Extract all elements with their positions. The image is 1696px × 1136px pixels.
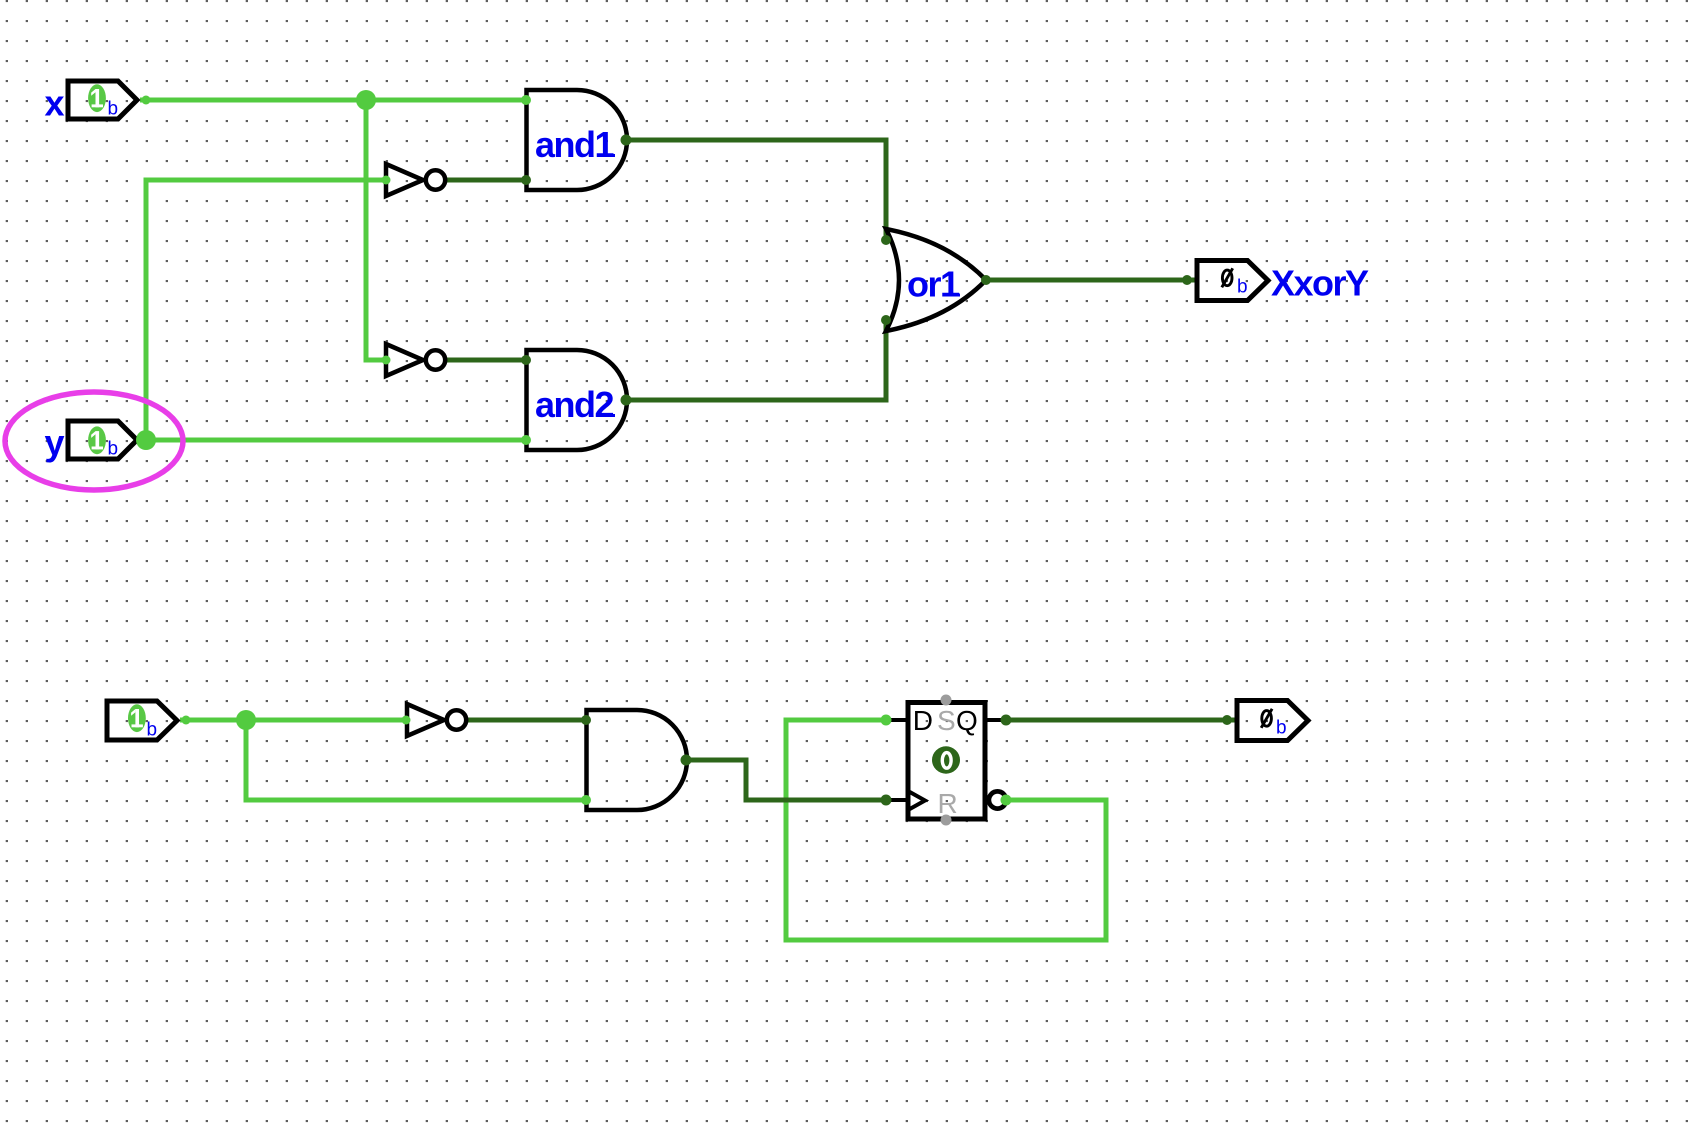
svg-text:b: b: [1276, 718, 1287, 739]
svg-text:XxorY: XxorY: [1271, 263, 1369, 304]
svg-text:and2: and2: [535, 384, 614, 425]
svg-text:or1: or1: [907, 264, 960, 305]
svg-text:y: y: [44, 422, 64, 463]
svg-text:D: D: [913, 705, 933, 736]
svg-text:and1: and1: [535, 124, 615, 165]
svg-text:b: b: [108, 439, 119, 460]
svg-text:S: S: [937, 705, 956, 736]
svg-text:b: b: [108, 99, 119, 120]
svg-text:b: b: [147, 720, 158, 741]
svg-text:x: x: [44, 83, 64, 124]
svg-text:Q: Q: [956, 705, 978, 736]
svg-text:b: b: [1237, 277, 1248, 298]
svg-text:R: R: [938, 788, 958, 819]
